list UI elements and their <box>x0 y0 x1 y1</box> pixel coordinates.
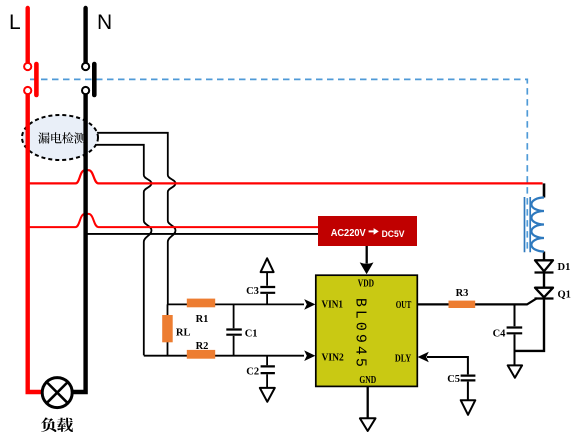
svg-text:DC5V: DC5V <box>382 229 405 240</box>
svg-text:BL0945: BL0945 <box>352 298 369 370</box>
svg-text:C3: C3 <box>246 286 259 297</box>
svg-text:R1: R1 <box>196 314 209 325</box>
svg-text:VIN1: VIN1 <box>322 300 344 311</box>
svg-text:VIN2: VIN2 <box>322 353 344 364</box>
svg-text:VDD: VDD <box>358 279 374 290</box>
svg-text:OUT: OUT <box>396 300 412 311</box>
svg-text:C4: C4 <box>493 329 507 340</box>
svg-text:AC220V: AC220V <box>331 228 366 239</box>
svg-text:C2: C2 <box>246 366 259 377</box>
svg-text:GND: GND <box>359 375 376 386</box>
svg-text:N: N <box>97 11 112 34</box>
svg-text:R3: R3 <box>456 288 469 299</box>
svg-text:C1: C1 <box>245 329 258 340</box>
svg-text:L: L <box>9 11 21 34</box>
svg-text:C5: C5 <box>447 374 460 385</box>
svg-text:D1: D1 <box>558 262 571 273</box>
svg-text:DLY: DLY <box>395 354 412 365</box>
svg-text:R2: R2 <box>196 341 209 352</box>
svg-text:RL: RL <box>176 327 191 338</box>
svg-text:Q1: Q1 <box>558 290 571 301</box>
